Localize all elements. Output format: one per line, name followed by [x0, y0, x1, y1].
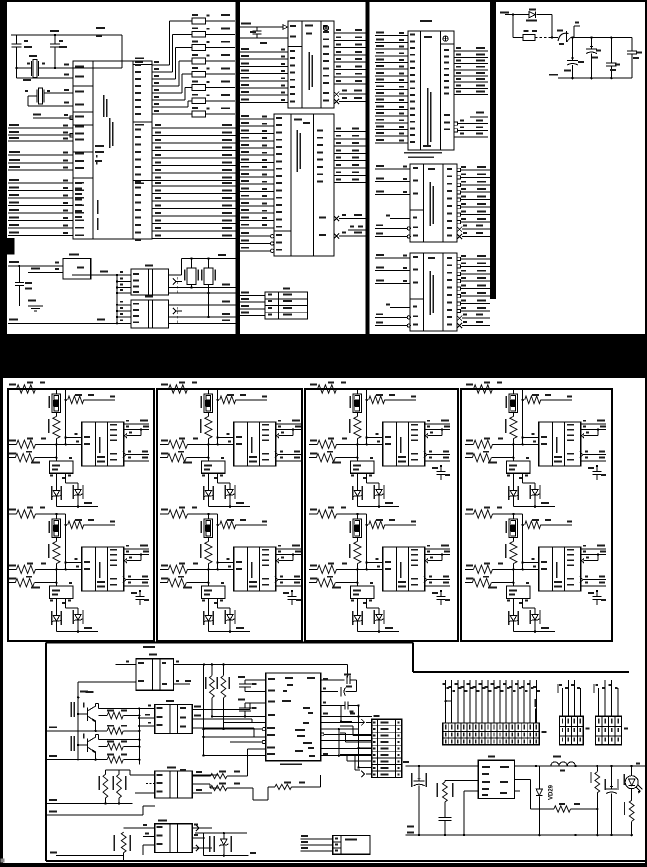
svg-text:VD29: VD29 [549, 784, 555, 800]
